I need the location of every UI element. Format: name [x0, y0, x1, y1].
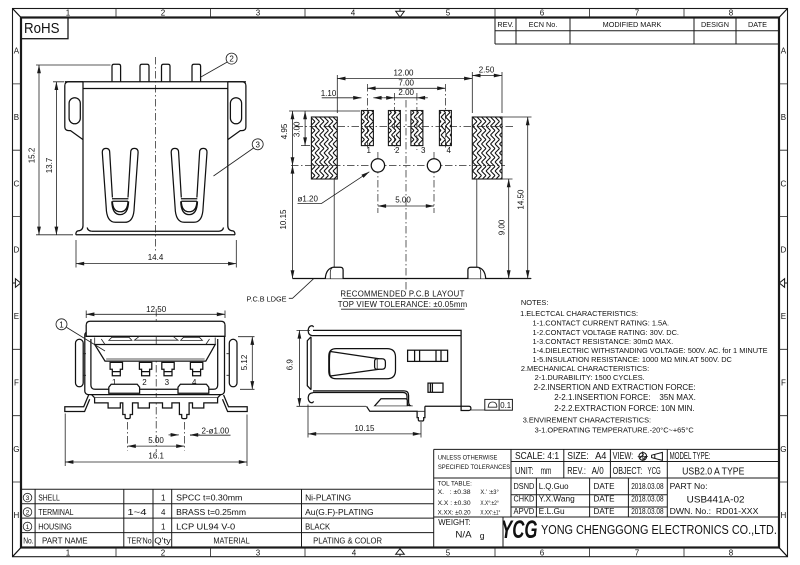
svg-text:1-3.CONTACT RESISTANCE: 30mΩ M: 1-3.CONTACT RESISTANCE: 30mΩ MAX. — [533, 337, 674, 346]
svg-text:2-2.INSERTION AND EXTRACTION F: 2-2.INSERTION AND EXTRACTION FORCE: — [534, 383, 696, 392]
svg-text:2: 2 — [395, 146, 400, 155]
svg-text:2: 2 — [142, 378, 147, 387]
svg-text:7.00: 7.00 — [398, 78, 414, 87]
svg-text:PLATING & COLOR: PLATING & COLOR — [313, 537, 382, 546]
svg-text:9.00: 9.00 — [497, 219, 506, 235]
svg-text:8: 8 — [729, 9, 734, 18]
svg-text:4: 4 — [351, 9, 356, 18]
svg-text:RoHS: RoHS — [24, 21, 60, 37]
svg-text:3: 3 — [256, 548, 261, 557]
svg-text:1: 1 — [161, 523, 166, 532]
svg-text:PART No:: PART No: — [670, 482, 708, 491]
svg-text:BLACK: BLACK — [305, 523, 331, 532]
svg-text:MODIFIED MARK: MODIFIED MARK — [603, 20, 662, 29]
svg-text:TER'No.: TER'No. — [127, 537, 153, 546]
svg-text:SIZE:: SIZE: — [567, 451, 588, 462]
svg-text:7: 7 — [635, 548, 640, 557]
svg-text:Q'ty: Q'ty — [154, 537, 171, 546]
svg-text:1~4: 1~4 — [127, 508, 147, 517]
svg-text:USB2.0 A TYPE: USB2.0 A TYPE — [682, 466, 745, 477]
svg-text:2-2.2.EXTRACTION FORCE: 10N MI: 2-2.2.EXTRACTION FORCE: 10N MIN. — [554, 404, 694, 413]
svg-text:4: 4 — [161, 508, 166, 517]
svg-text:SPECIFIED TOLERANCES: SPECIFIED TOLERANCES — [438, 464, 510, 471]
svg-text:N/A: N/A — [455, 529, 472, 540]
svg-text:X.XX':±1°: X.XX':±1° — [480, 509, 500, 517]
svg-text:A/0: A/0 — [592, 466, 604, 477]
svg-text:DSND: DSND — [514, 482, 535, 491]
svg-text:DATE: DATE — [748, 20, 767, 29]
svg-text:5.12: 5.12 — [240, 354, 249, 370]
svg-text:SHELL: SHELL — [38, 494, 60, 503]
svg-text:PART NAME: PART NAME — [42, 537, 88, 546]
svg-text:5.00: 5.00 — [148, 436, 164, 445]
svg-text:A4: A4 — [595, 451, 607, 462]
svg-text:X. : ±0.38: X. : ±0.38 — [438, 489, 472, 496]
svg-text:3: 3 — [165, 378, 170, 387]
svg-text:3: 3 — [255, 140, 260, 149]
svg-text:6.9: 6.9 — [285, 359, 294, 371]
svg-text:mm: mm — [541, 466, 552, 477]
svg-text:6: 6 — [540, 9, 545, 18]
svg-text:DWN. No.: RD01-XXX: DWN. No.: RD01-XXX — [670, 507, 760, 516]
svg-text:3: 3 — [421, 146, 426, 155]
svg-text:g: g — [480, 531, 485, 541]
svg-text:1: 1 — [161, 494, 166, 503]
svg-text:14.4: 14.4 — [148, 253, 164, 262]
svg-text:E: E — [781, 312, 786, 321]
svg-text:DATE: DATE — [594, 495, 615, 504]
svg-text:C: C — [14, 179, 20, 188]
svg-text:5: 5 — [446, 548, 451, 557]
svg-text:REV.: REV. — [497, 20, 513, 29]
svg-text:2: 2 — [161, 548, 166, 557]
svg-text:E.L.Gu: E.L.Gu — [539, 507, 565, 516]
svg-text:4: 4 — [352, 548, 357, 557]
svg-text:2.MECHANICAL CHARACTERISTICS:: 2.MECHANICAL CHARACTERISTICS: — [521, 364, 649, 373]
svg-text:5.00: 5.00 — [395, 196, 411, 205]
svg-text:REV.:: REV.: — [567, 466, 586, 477]
svg-text:12.50: 12.50 — [146, 305, 167, 314]
svg-text:10.15: 10.15 — [354, 424, 375, 433]
svg-text:14.50: 14.50 — [516, 189, 525, 210]
svg-text:13.7: 13.7 — [45, 157, 54, 173]
svg-text:WEIGHT:: WEIGHT: — [438, 518, 470, 527]
svg-text:5: 5 — [446, 9, 451, 18]
svg-text:2-2.1.INSERTION FORCE: 35N: 2-2.1.INSERTION FORCE: 35N MAX. — [554, 393, 696, 402]
svg-text:USB441A-02: USB441A-02 — [687, 495, 745, 505]
svg-text:TOP VIEW TOLERANCE: ±0.05mm: TOP VIEW TOLERANCE: ±0.05mm — [338, 300, 468, 309]
svg-text:H: H — [781, 511, 787, 520]
svg-text:1-2.CONTACT VOLTAGE RATING: 30: 1-2.CONTACT VOLTAGE RATING: 30V. DC. — [533, 328, 679, 337]
svg-text:2-ø1.00: 2-ø1.00 — [202, 426, 230, 435]
svg-text:1-1.CONTACT CURRENT RATING: 1.: 1-1.CONTACT CURRENT RATING: 1.5A. — [533, 319, 670, 328]
svg-text:8: 8 — [729, 548, 734, 557]
svg-text:2018.03.08: 2018.03.08 — [631, 507, 664, 516]
svg-text:No.: No. — [23, 537, 33, 546]
svg-text:RECOMMENDED P.C.B LAYOUT: RECOMMENDED P.C.B LAYOUT — [340, 289, 464, 298]
svg-text:G: G — [780, 445, 786, 454]
svg-text:4.95: 4.95 — [280, 123, 289, 139]
svg-text:3-1.OPERATING TEMPERATURE.-20°: 3-1.OPERATING TEMPERATURE.-20°C~+65°C — [535, 425, 695, 434]
svg-text:Y.X.Wang: Y.X.Wang — [539, 495, 575, 504]
svg-text:LCP UL94 V-0: LCP UL94 V-0 — [176, 523, 236, 532]
svg-text:G: G — [13, 445, 19, 454]
svg-text:16.1: 16.1 — [148, 452, 164, 461]
svg-text:1: 1 — [26, 524, 30, 531]
svg-text:ECN No.: ECN No. — [529, 20, 558, 29]
svg-text:15.2: 15.2 — [28, 147, 37, 163]
svg-text:3.00: 3.00 — [293, 121, 302, 137]
svg-text:2-1.DURABILITY: 1500 CYCLES.: 2-1.DURABILITY: 1500 CYCLES. — [535, 373, 645, 382]
svg-text:D: D — [14, 246, 20, 255]
svg-text:3: 3 — [26, 495, 30, 502]
svg-text:2018.03.08: 2018.03.08 — [631, 482, 664, 491]
svg-text:CHKD: CHKD — [514, 495, 535, 504]
svg-text:B: B — [781, 113, 786, 122]
svg-text:X.X°:±2°: X.X°:±2° — [480, 499, 499, 507]
svg-text:1: 1 — [66, 9, 71, 18]
svg-text:1-4.DIELECTRIC WITHSTANDING VO: 1-4.DIELECTRIC WITHSTANDING VOLTAGE: 500… — [533, 346, 768, 355]
svg-text:H: H — [14, 511, 20, 520]
svg-text:1: 1 — [66, 548, 71, 557]
svg-text:X.' :±3°: X.' :±3° — [480, 488, 499, 496]
svg-text:X.XX: ±0.20: X.XX: ±0.20 — [438, 510, 471, 517]
svg-text:OBJECT:: OBJECT: — [613, 466, 643, 477]
svg-text:2.50: 2.50 — [479, 66, 495, 75]
svg-text:F: F — [781, 378, 786, 387]
svg-text:VIEW:: VIEW: — [613, 451, 634, 462]
svg-text:P.C.B LDGE: P.C.B LDGE — [247, 294, 287, 303]
svg-text:2018.03.08: 2018.03.08 — [631, 495, 664, 504]
svg-text:E: E — [14, 312, 19, 321]
svg-text:DATE: DATE — [594, 507, 615, 516]
svg-text:L.Q.Guo: L.Q.Guo — [539, 482, 569, 491]
svg-text:YCG: YCG — [648, 466, 661, 477]
svg-text:1: 1 — [59, 320, 64, 329]
svg-text:2.00: 2.00 — [398, 88, 414, 97]
svg-text:F: F — [14, 378, 19, 387]
svg-text:NOTES:: NOTES: — [521, 298, 549, 307]
svg-text:YCG: YCG — [501, 516, 538, 544]
svg-text:HOUSING: HOUSING — [38, 523, 72, 532]
svg-text:MODEL TYPE:: MODEL TYPE: — [670, 451, 711, 462]
svg-text:X.X : ±0.30: X.X : ±0.30 — [438, 500, 472, 507]
svg-text:MATERIAL: MATERIAL — [213, 537, 250, 546]
svg-text:2: 2 — [161, 9, 166, 18]
svg-text:TERMINAL: TERMINAL — [38, 508, 74, 517]
svg-text:B: B — [14, 113, 19, 122]
svg-text:4: 4 — [447, 146, 452, 155]
svg-text:UNLESS OTHERWISE: UNLESS OTHERWISE — [438, 455, 498, 462]
svg-text:SPCC t=0.30mm: SPCC t=0.30mm — [176, 494, 243, 503]
svg-text:6: 6 — [540, 548, 545, 557]
svg-text:C: C — [781, 179, 787, 188]
svg-text:SCALE: 4:1: SCALE: 4:1 — [515, 451, 559, 462]
svg-text:Ni-PLATING: Ni-PLATING — [305, 494, 351, 503]
svg-text:D: D — [781, 246, 787, 255]
svg-text:A: A — [781, 47, 787, 56]
svg-text:TOL TABLE:: TOL TABLE: — [438, 480, 473, 487]
svg-text:BRASS t=0.25mm: BRASS t=0.25mm — [176, 508, 246, 517]
svg-text:DESIGN: DESIGN — [701, 20, 729, 29]
svg-text:ø1.20: ø1.20 — [298, 195, 319, 204]
svg-text:DATE: DATE — [594, 482, 615, 491]
svg-text:YONG CHENGGONG ELECTRONICS CO.: YONG CHENGGONG ELECTRONICS CO.,LTD. — [541, 523, 777, 537]
svg-text:UNIT:: UNIT: — [515, 466, 534, 477]
svg-text:10.15: 10.15 — [279, 209, 288, 230]
svg-text:APVD: APVD — [514, 507, 535, 516]
svg-text:3.ENVIREMENT CHARACTERISTICS:: 3.ENVIREMENT CHARACTERISTICS: — [523, 416, 651, 425]
svg-text:2: 2 — [26, 509, 30, 516]
svg-text:Au(G.F)-PLATING: Au(G.F)-PLATING — [305, 508, 374, 517]
svg-text:A: A — [14, 47, 20, 56]
svg-text:2: 2 — [229, 55, 234, 64]
svg-text:0.1: 0.1 — [500, 401, 511, 410]
svg-text:1-5.INSULATION RESISTANCE: 100: 1-5.INSULATION RESISTANCE: 1000 MΩ MIN.A… — [533, 355, 733, 364]
svg-text:1: 1 — [367, 146, 372, 155]
svg-text:12.00: 12.00 — [393, 69, 414, 78]
svg-text:7: 7 — [635, 9, 640, 18]
svg-text:1.ELECTCAL CHARACTERISTICS:: 1.ELECTCAL CHARACTERISTICS: — [520, 309, 638, 318]
svg-text:3: 3 — [256, 9, 261, 18]
svg-text:1.10: 1.10 — [321, 89, 337, 98]
